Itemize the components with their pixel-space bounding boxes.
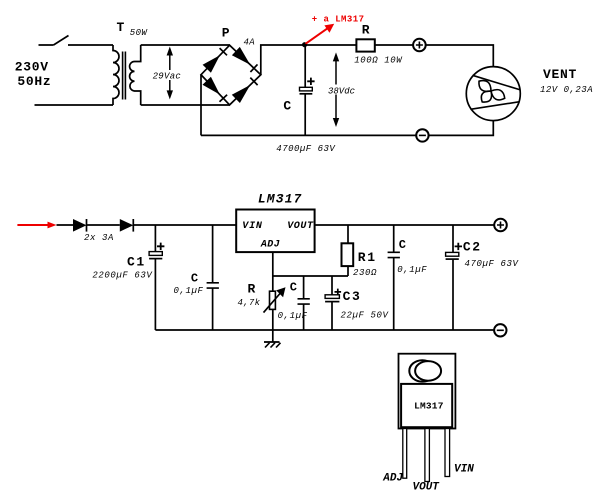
svg-text:+ a LM317: + a LM317: [312, 14, 365, 24]
svg-text:VENT: VENT: [543, 67, 577, 82]
ADJ pin lead: [272, 252, 274, 291]
capacitor C 0.1uF adj plates: [298, 299, 310, 304]
svg-text:T: T: [117, 20, 125, 35]
capacitor C3 plates: [325, 295, 339, 302]
svg-text:50Hz: 50Hz: [17, 74, 51, 89]
ADJ rail: [273, 275, 348, 277]
capacitor C3 top lead: [331, 276, 333, 295]
plus mark of C2: [455, 243, 462, 250]
wire diodes to VIN: [133, 224, 236, 226]
svg-text:C3: C3: [343, 289, 362, 304]
svg-text:C: C: [283, 98, 291, 113]
svg-text:VIN: VIN: [242, 221, 263, 232]
svg-text:VOUT: VOUT: [287, 221, 314, 232]
svg-text:ADJ: ADJ: [260, 240, 280, 251]
wire between diodes: [87, 224, 120, 226]
bridge diode D3: [203, 77, 228, 102]
transformer T primary winding: [113, 45, 119, 105]
svg-text:230Ω: 230Ω: [353, 268, 377, 278]
capacitor C 0.1uF out bottom lead: [393, 258, 395, 330]
bottom wire to bridge: [201, 134, 416, 136]
wire bridge minus output down: [200, 75, 202, 136]
svg-text:R: R: [362, 22, 370, 37]
diode D6: [120, 219, 134, 232]
minus terminal (output): [494, 324, 506, 336]
regulator U1 LM317 box: [236, 210, 314, 253]
wire fan bottom to minus terminal: [429, 121, 494, 136]
wire input to diode: [57, 224, 74, 226]
package body: [401, 384, 452, 427]
switch S1: [39, 36, 114, 46]
svg-text:4700µF 63V: 4700µF 63V: [276, 144, 336, 154]
svg-text:2200µF 63V: 2200µF 63V: [92, 271, 153, 281]
svg-text:C: C: [191, 271, 198, 285]
pot bottom lead: [272, 309, 274, 330]
capacitor C 0.1uF input bottom lead: [212, 288, 214, 330]
diode D5: [73, 219, 87, 232]
wire R to plus terminal: [375, 44, 413, 46]
svg-text:ADJ: ADJ: [382, 473, 403, 485]
resistor R1 top lead: [347, 225, 349, 243]
fan VENT symbol: [466, 67, 520, 121]
plus terminal (top circuit): [413, 39, 426, 52]
wire bridge plus output up and right: [261, 45, 305, 75]
capacitor C 0.1uF out top lead: [393, 225, 395, 252]
package leg 2: [425, 429, 430, 482]
package mounting hole: [409, 360, 441, 381]
package leg 3: [445, 429, 450, 477]
svg-text:0,1µF: 0,1µF: [174, 286, 204, 296]
29Vac measurement arrow: [167, 47, 173, 100]
plus mark of C1: [157, 243, 164, 250]
resistor R1: [342, 243, 354, 266]
capacitor C1 bottom lead: [154, 259, 156, 330]
svg-text:P: P: [222, 26, 230, 41]
capacitor C 4700uF top lead: [304, 45, 306, 87]
svg-text:470µF 63V: 470µF 63V: [465, 259, 520, 269]
ground symbol: [264, 342, 281, 348]
svg-text:0,1µF: 0,1µF: [278, 311, 308, 321]
svg-text:12V 0,23A: 12V 0,23A: [540, 85, 593, 95]
label 38Vdc: [327, 85, 356, 97]
svg-text:0,1µF: 0,1µF: [397, 265, 427, 275]
svg-text:50W: 50W: [130, 28, 149, 38]
capacitor C2 plates: [446, 252, 459, 259]
capacitor C 4700uF plates: [300, 87, 313, 94]
potentiometer R 4.7k: [264, 287, 286, 312]
transformer T secondary winding: [130, 45, 141, 105]
capacitor C 0.1uF adj top lead: [303, 276, 305, 298]
capacitor C2 bottom lead: [452, 259, 454, 330]
svg-text:R1: R1: [358, 250, 377, 265]
red annotation arrow to LM317: [306, 24, 335, 44]
capacitor C 0.1uF input top lead: [212, 225, 214, 282]
transformer core: [123, 52, 126, 100]
svg-text:100Ω 10W: 100Ω 10W: [354, 56, 403, 66]
bridge diode D1: [203, 48, 227, 73]
wire bottom left: [35, 104, 114, 106]
wire junction to R: [305, 44, 357, 46]
bridge rectifier P diamond: [201, 45, 261, 105]
plus terminal (output): [494, 219, 507, 232]
red input arrow: [17, 222, 56, 229]
wire transformer to bridge bottom: [141, 104, 230, 106]
capacitor C 4700uF bottom lead: [304, 94, 306, 136]
minus terminal (top circuit): [416, 129, 428, 141]
capacitor C 0.1uF input plates: [207, 283, 219, 288]
ground stem: [272, 330, 274, 342]
AC source label 230V 50Hz: [15, 59, 52, 88]
wire VOUT to plus terminal: [315, 224, 495, 226]
svg-text:C1: C1: [127, 254, 146, 269]
bridge diode D2: [232, 47, 258, 72]
capacitor C 0.1uF adj bottom lead: [303, 304, 305, 330]
svg-text:C: C: [399, 238, 406, 252]
plus mark of C: [307, 78, 314, 85]
svg-text:4A: 4A: [244, 37, 255, 47]
capacitor C1 plates: [149, 252, 162, 259]
bridge diode D4: [232, 78, 258, 103]
bottom rail: [155, 329, 494, 331]
capacitor C 0.1uF out plates: [388, 252, 400, 257]
svg-text:VIN: VIN: [454, 464, 474, 476]
package leg 1: [403, 429, 407, 479]
svg-text:R: R: [248, 282, 256, 297]
svg-text:38Vdc: 38Vdc: [328, 87, 355, 97]
svg-text:C: C: [290, 281, 297, 295]
svg-text:2x 3A: 2x 3A: [84, 233, 114, 243]
capacitor C3 bottom lead: [331, 302, 333, 330]
LM317 package tab outline: [399, 354, 456, 429]
svg-text:LM317: LM317: [414, 400, 444, 411]
capacitor C2 top lead: [452, 225, 454, 252]
svg-text:C2: C2: [463, 240, 482, 255]
capacitor C1 top lead: [154, 225, 156, 252]
resistor R1 bottom lead: [347, 266, 349, 276]
svg-text:4,7k: 4,7k: [238, 298, 261, 308]
plus mark of C3: [335, 289, 342, 296]
wire plus terminal to fan: [426, 45, 494, 67]
label 29Vac: [152, 70, 183, 82]
svg-text:29Vac: 29Vac: [153, 72, 182, 82]
svg-text:LM317: LM317: [258, 191, 303, 206]
38Vdc measurement arrow: [333, 52, 339, 127]
svg-text:230V: 230V: [15, 59, 49, 74]
resistor R: [356, 39, 374, 51]
node junction dot: [302, 42, 307, 47]
wire transformer to bridge top: [141, 44, 230, 46]
svg-text:22µF 50V: 22µF 50V: [341, 311, 390, 321]
svg-text:VOUT: VOUT: [413, 482, 441, 494]
